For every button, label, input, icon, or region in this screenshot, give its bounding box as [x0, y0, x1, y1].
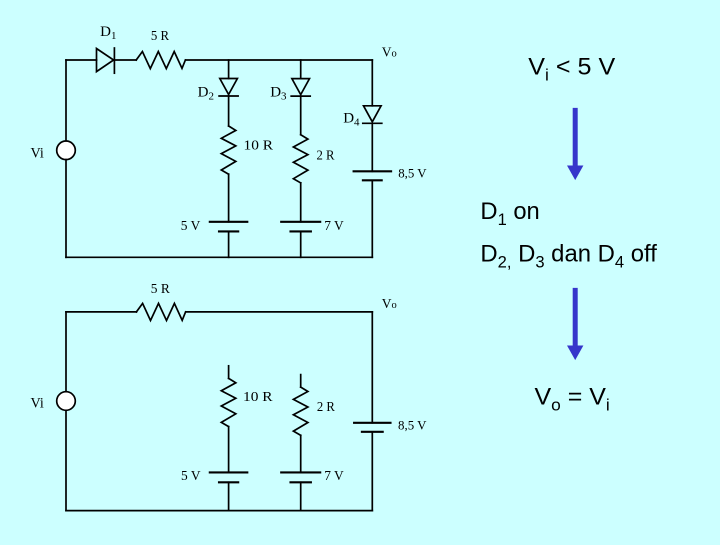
svg-text:5 R: 5 R [151, 282, 171, 297]
svg-text:Vi: Vi [31, 396, 44, 412]
svg-text:8,5 V: 8,5 V [398, 166, 427, 181]
svg-text:D2, D3 dan D4 off: D2, D3 dan D4 off [480, 240, 657, 272]
svg-text:D3: D3 [270, 85, 287, 103]
svg-text:D2: D2 [198, 85, 214, 103]
svg-text:10 R: 10 R [244, 138, 274, 153]
svg-text:Vo: Vo [382, 296, 397, 311]
svg-text:Vo: Vo [382, 45, 397, 60]
svg-text:2 R: 2 R [317, 148, 336, 163]
svg-text:10 R: 10 R [243, 390, 273, 405]
svg-text:D1: D1 [100, 24, 116, 42]
svg-text:Vi: Vi [31, 145, 44, 161]
svg-text:5 V: 5 V [181, 469, 201, 484]
svg-text:Vo = Vi: Vo = Vi [535, 384, 610, 415]
svg-text:D1 on: D1 on [480, 198, 539, 230]
svg-text:7 V: 7 V [324, 469, 344, 484]
svg-text:5 R: 5 R [151, 29, 170, 44]
svg-text:7 V: 7 V [324, 219, 344, 234]
svg-text:8,5 V: 8,5 V [398, 418, 427, 433]
svg-text:D4: D4 [343, 111, 360, 129]
svg-text:5 V: 5 V [181, 219, 201, 234]
svg-text:Vi < 5 V: Vi < 5 V [528, 54, 615, 85]
svg-text:2 R: 2 R [317, 400, 336, 415]
